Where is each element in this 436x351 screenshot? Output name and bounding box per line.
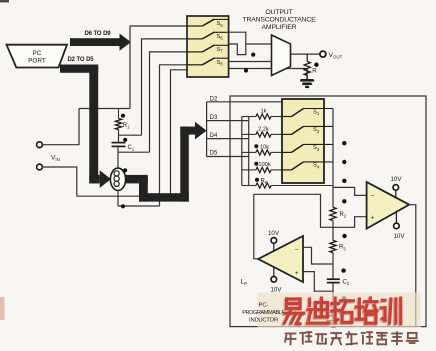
terminal Vin+ [37,142,43,148]
wire S5 pole to R1 top node [130,26,187,109]
wire U3 inverting input to R3/C2 node [303,247,333,264]
svg-text:D6 TO D9: D6 TO D9 [84,31,111,37]
svg-text:R1: R1 [123,123,130,130]
wire node to U3 output [254,194,258,258]
thick bus arrow D6-D9 [70,38,120,46]
wire S7 node join [118,151,150,153]
terminal Vout [320,51,326,57]
resistor 100k [242,169,256,171]
svg-text:OUTPUT: OUTPUT [265,9,292,16]
wire Vin+ to R1 top node [42,109,79,145]
svg-text:100k: 100k [258,162,270,168]
wire node to op-amp non-inverting input [254,194,367,227]
supply -10V (U3) [271,277,277,283]
svg-text:RP: RP [261,178,268,185]
svg-text:S1: S1 [313,109,320,116]
watermark char di [307,300,310,307]
svg-text:S3: S3 [313,145,320,152]
wire S5/S6 contacts stepped loop [228,32,245,54]
resistor R4 [330,302,336,316]
thick bus arrow into inductor [89,175,99,184]
svg-text:D5: D5 [210,151,218,157]
switch bank box S5-S8 [187,16,229,77]
scan artefact top-left [0,0,9,2]
ground (bottom of chain) [332,317,334,321]
svg-text:VOUT: VOUT [329,52,343,60]
svg-text:+: + [371,215,375,222]
wire S6 pole to R1/C1 node [142,39,188,135]
wire R1 to C1 [118,130,120,143]
junction dot near inductor top [123,168,127,172]
svg-text:S2: S2 [313,127,320,134]
svg-text:C2: C2 [343,279,350,286]
svg-text:−: − [371,193,375,200]
wire inductor to bottom node [117,191,119,207]
wire S8 pole to node below inductor [160,65,188,206]
wire lower pole to Vin return node [171,70,188,196]
wire C1 to inductor [117,146,119,168]
junction dot above C2 [341,268,345,272]
wire bottom rail [77,195,171,197]
wire R3-C2 [332,253,334,280]
svg-text:PC: PC [33,50,42,57]
svg-text:10V: 10V [390,176,402,183]
watermark slogan [286,333,296,335]
op-amp U2 [367,182,410,229]
wire S7 pole to C1/L node [150,52,188,152]
svg-text:INDUCTOR: INDUCTOR [249,317,278,323]
watermark char pei [357,300,360,320]
junction dot 2 [342,160,346,164]
svg-text:10V: 10V [268,230,280,237]
svg-text:S5: S5 [217,21,224,28]
svg-text:AMPLIFIER: AMPLIFIER [262,24,297,31]
svg-text:R2: R2 [340,212,347,219]
svg-text:2.2k: 2.2k [258,127,269,133]
switch S8 [187,64,202,66]
switch S5 [187,25,202,27]
wire OTA upper input [246,43,272,45]
wire S6 node join [119,134,142,136]
enclosure box (PC-programmable inductor) [230,96,426,327]
svg-text:S7: S7 [217,47,224,54]
svg-text:S8: S8 [217,60,224,67]
resistor RP [242,185,256,187]
ground (top, below S-bank) [306,69,308,80]
switch S4 [282,169,292,171]
switch S2 [282,133,292,135]
svg-text:D2: D2 [210,97,218,103]
svg-text:D4: D4 [210,133,218,139]
resistor R1 [118,109,120,119]
terminal Vin- [37,164,43,170]
thick bus path from inductor to D-cells [125,175,148,184]
svg-text:PROGRAMMABLE: PROGRAMMABLE [242,310,285,316]
wire D3 row [207,120,249,122]
svg-text:R3: R3 [339,245,346,252]
svg-text:R: R [312,68,317,75]
svg-text:10V: 10V [393,233,405,240]
junction dot 4 [342,199,346,203]
op-amp U1 output transconductance amplifier [272,35,291,76]
thick bus arrowhead into D cells [195,122,207,140]
wire OTA lower input [228,61,271,63]
wire U3 non-inverting input to C2/R4 node [303,272,333,292]
switch S3 [282,151,292,153]
junction dot on ground wire [244,68,248,72]
svg-text:TRANSCONDUCTANCE: TRANSCONDUCTANCE [243,17,317,24]
wire R1 top node rail [79,108,130,110]
supply -10V (U2) [394,223,400,229]
svg-text:LP: LP [241,278,248,286]
wire D2 row [207,101,282,103]
junction dot 1 [342,141,346,145]
wire Vin- to bottom rail [42,167,76,196]
resistor 10k [242,151,256,153]
junction dot near OTA input [251,53,255,57]
bus from switch contacts [332,109,334,208]
svg-text:+: + [295,270,299,277]
watermark char tuo [332,299,335,323]
inner partition line [248,117,250,186]
svg-text:PORT: PORT [28,58,46,65]
watermark edge fragment [0,297,5,320]
thick bus path D2-D5 (down the left) [60,65,98,73]
wire bus to op-amp inverting input [333,187,367,195]
node cells D2-D5 [206,102,208,157]
svg-text:−: − [295,247,299,254]
resistor R2 [330,207,336,220]
bus joining D rows to resistors [241,117,243,186]
svg-text:1k: 1k [260,109,266,115]
junction dot 3 [342,179,346,183]
svg-text:10k: 10k [260,145,269,151]
wire U2 output [409,205,416,327]
resistor R3 [330,240,336,252]
wire C2-R4 [332,283,334,303]
svg-text:C1: C1 [128,145,135,152]
switch S6 [187,38,202,40]
wire node below inductor [118,205,160,207]
svg-text:D3: D3 [210,115,218,121]
PC port connector [7,45,68,68]
resistor R (load) [306,54,308,61]
svg-text:10V: 10V [270,287,282,294]
ground (below R load) [306,76,308,81]
resistor 1k [242,116,256,118]
switch S7 [187,51,202,53]
switch S1 [282,116,292,118]
resistor 2.2k [242,133,256,135]
svg-text:VIN: VIN [51,155,60,163]
svg-text:S6: S6 [217,34,224,41]
wire R2-R3 [332,221,334,241]
wire S8 contact to ground [228,68,307,70]
wire D4 row [207,138,249,140]
watermark char yi [285,299,299,302]
junction dot below C2 [342,296,346,300]
capacitor C2 [327,278,340,280]
junction dot below inductor [121,204,125,208]
wire D5 row [207,156,249,158]
wire OTA output [291,53,320,55]
junction dot R2/R3 [342,234,346,238]
watermark char xun [381,300,384,303]
svg-text:D2 TO D5: D2 TO D5 [67,57,94,63]
svg-text:PC-: PC- [259,302,269,308]
inductor L (programmable) [110,168,125,190]
switch bank box S1-S4 [282,99,324,183]
op-amp U3 (points left) [258,236,303,282]
watermark band [258,293,422,328]
svg-text:S4: S4 [313,163,320,170]
capacitor C1 [112,142,126,144]
